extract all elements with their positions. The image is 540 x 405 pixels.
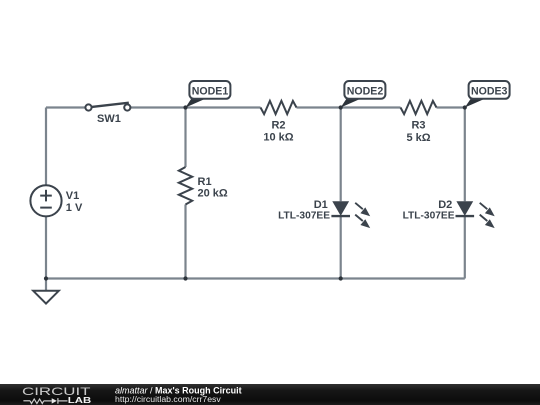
- svg-text:http://circuitlab.com/crr7esv: http://circuitlab.com/crr7esv: [115, 394, 221, 404]
- svg-text:D2: D2: [438, 199, 452, 211]
- svg-text:10 kΩ: 10 kΩ: [263, 132, 293, 144]
- svg-text:R2: R2: [271, 119, 285, 131]
- svg-text:NODE2: NODE2: [347, 86, 384, 98]
- svg-text:NODE3: NODE3: [471, 86, 508, 98]
- svg-text:R1: R1: [198, 176, 212, 188]
- svg-text:LAB: LAB: [68, 395, 91, 405]
- svg-text:20 kΩ: 20 kΩ: [198, 187, 228, 199]
- svg-text:1 V: 1 V: [66, 202, 83, 214]
- svg-text:LTL-307EE: LTL-307EE: [278, 210, 330, 221]
- svg-text:SW1: SW1: [97, 113, 121, 125]
- svg-text:V1: V1: [66, 190, 79, 202]
- svg-text:R3: R3: [411, 119, 425, 131]
- svg-text:5 kΩ: 5 kΩ: [406, 132, 430, 144]
- svg-text:D1: D1: [314, 199, 328, 211]
- svg-text:NODE1: NODE1: [192, 86, 229, 98]
- svg-text:LTL-307EE: LTL-307EE: [403, 210, 455, 221]
